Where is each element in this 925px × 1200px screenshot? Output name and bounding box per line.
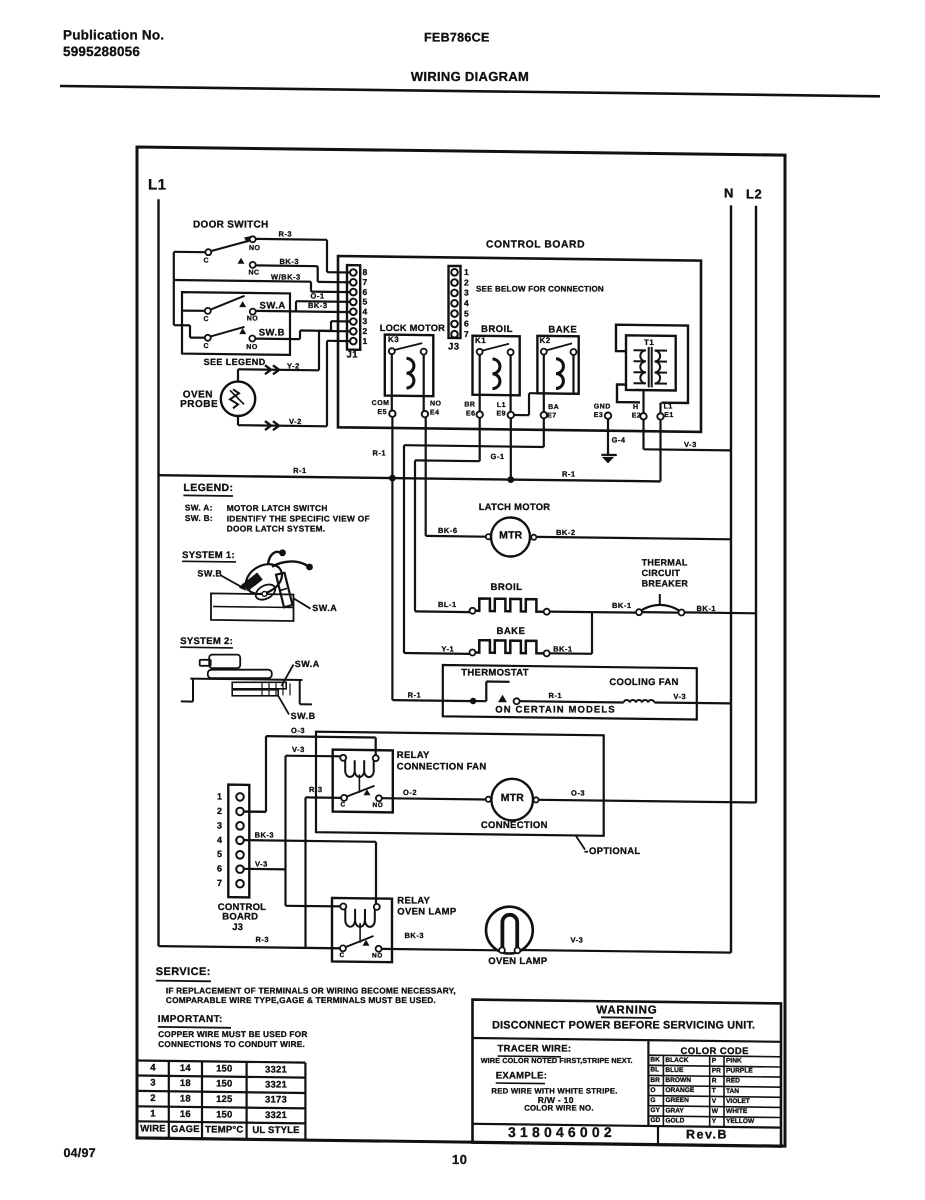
wire E9 to bus (491, 418, 511, 479)
svg-text:SERVICE:: SERVICE: (156, 966, 211, 978)
transformer primary loop wire (616, 325, 688, 403)
wire R-1 to thermostat (392, 478, 473, 701)
svg-text:3: 3 (464, 288, 469, 298)
svg-text:5995288056: 5995288056 (63, 44, 140, 59)
svg-text:318046002: 318046002 (508, 1124, 616, 1140)
svg-text:PROBE: PROBE (180, 399, 218, 410)
svg-text:NO: NO (247, 315, 259, 322)
svg-text:CIRCUIT: CIRCUIT (642, 568, 681, 578)
svg-text:E7: E7 (547, 412, 557, 419)
svg-text:R-1: R-1 (408, 691, 422, 700)
svg-text:BROWN: BROWN (665, 1077, 691, 1084)
svg-text:DISCONNECT POWER BEFORE SERVIC: DISCONNECT POWER BEFORE SERVICING UNIT. (492, 1019, 755, 1031)
heating element broil (438, 582, 550, 615)
relay oven lamp (332, 896, 457, 963)
wire BA E7 to bake element (404, 418, 544, 654)
svg-text:WARNING: WARNING (596, 1005, 657, 1017)
wire R-3 door NO to J1-8 (256, 230, 351, 273)
switch SW.B (204, 327, 285, 351)
svg-text:BL-1: BL-1 (438, 600, 457, 609)
svg-text:SEE LEGEND: SEE LEGEND (204, 357, 266, 367)
motor connection fan MTR (481, 779, 548, 831)
svg-text:SW. B:: SW. B: (185, 513, 213, 523)
svg-text:COOLING FAN: COOLING FAN (609, 677, 678, 688)
svg-text:RELAY: RELAY (397, 896, 430, 907)
wire L1 bus (157, 199, 159, 946)
svg-text:1: 1 (363, 336, 368, 346)
svg-text:04/97: 04/97 (64, 1146, 96, 1160)
svg-text:E3: E3 (594, 412, 604, 419)
svg-text:L1: L1 (148, 176, 167, 193)
svg-text:J1: J1 (347, 350, 359, 361)
wire J3-2 stub (243, 810, 266, 812)
thermal circuit breaker (612, 558, 716, 616)
svg-text:O-1: O-1 (311, 291, 325, 300)
svg-text:V-3: V-3 (292, 745, 305, 754)
svg-text:L1: L1 (664, 403, 673, 410)
svg-text:ON CERTAIN MODELS: ON CERTAIN MODELS (495, 705, 615, 716)
svg-text:COMPARABLE WIRE TYPE,GAGE & TE: COMPARABLE WIRE TYPE,GAGE & TERMINALS MU… (166, 995, 436, 1005)
svg-text:NC: NC (249, 269, 260, 276)
svg-text:7: 7 (363, 277, 368, 287)
page footer (64, 1146, 468, 1167)
svg-text:4: 4 (363, 306, 368, 316)
wire V-2 probe to J1-1 (238, 341, 351, 430)
svg-text:3173: 3173 (265, 1095, 287, 1106)
svg-text:2: 2 (363, 326, 368, 336)
svg-text:IDENTIFY THE SPECIFIC VIEW OF: IDENTIFY THE SPECIFIC VIEW OF (227, 514, 370, 524)
svg-text:R-1: R-1 (549, 691, 563, 700)
terminal E6 BR (464, 402, 483, 418)
svg-text:OVEN LAMP: OVEN LAMP (397, 907, 457, 918)
svg-text:TRACER WIRE:: TRACER WIRE: (498, 1044, 572, 1055)
svg-text:10: 10 (452, 1152, 467, 1167)
svg-text:LEGEND:: LEGEND: (183, 482, 233, 494)
svg-text:GND: GND (594, 404, 611, 411)
wire door C to latch switches (174, 252, 206, 338)
svg-text:3: 3 (150, 1078, 155, 1089)
svg-text:EXAMPLE:: EXAMPLE: (496, 1071, 548, 1082)
svg-text:J3: J3 (232, 922, 243, 933)
svg-text:WIRING DIAGRAM: WIRING DIAGRAM (411, 69, 529, 84)
svg-text:WIRE: WIRE (140, 1124, 166, 1135)
svg-text:OPTIONAL: OPTIONAL (589, 846, 640, 857)
svg-text:R-3: R-3 (279, 230, 293, 239)
control board box (338, 239, 701, 432)
svg-text:150: 150 (216, 1064, 232, 1075)
svg-text:BL: BL (650, 1067, 659, 1074)
part number band (473, 1124, 782, 1145)
svg-text:8: 8 (363, 267, 368, 277)
wire E9 to K2 bottom (514, 393, 579, 415)
svg-text:MTR: MTR (501, 792, 525, 804)
wire O-2 fan relay NO to fan motor (382, 788, 486, 800)
connector J1 (347, 265, 368, 360)
svg-text:GREEN: GREEN (665, 1097, 689, 1104)
svg-text:125: 125 (216, 1094, 233, 1105)
node junction E9/R-1 (507, 476, 514, 483)
svg-text:4: 4 (150, 1063, 156, 1074)
svg-text:BA: BA (548, 404, 559, 411)
svg-text:R-1: R-1 (373, 449, 387, 458)
svg-text:SW.B: SW.B (291, 711, 316, 721)
svg-text:1: 1 (217, 791, 223, 801)
svg-text:TAN: TAN (726, 1088, 739, 1095)
node L1 (148, 176, 167, 193)
svg-text:BK-3: BK-3 (308, 301, 328, 310)
wire L2 bus (755, 206, 757, 803)
svg-text:P: P (712, 1057, 717, 1064)
svg-text:V-2: V-2 (289, 417, 302, 426)
svg-text:5: 5 (464, 308, 469, 318)
svg-text:BK-3: BK-3 (255, 831, 275, 840)
svg-text:L2: L2 (746, 187, 762, 202)
svg-text:CONNECTIONS TO CONDUIT WIRE.: CONNECTIONS TO CONDUIT WIRE. (158, 1039, 305, 1049)
wire V-3 oven lamp to N (521, 935, 731, 952)
svg-text:COPPER WIRE MUST BE USED FOR: COPPER WIRE MUST BE USED FOR (158, 1029, 307, 1039)
svg-text:O: O (650, 1087, 655, 1094)
svg-text:3321: 3321 (265, 1079, 287, 1090)
wire BR E6 to broil element (415, 418, 480, 612)
svg-text:SW. A:: SW. A: (185, 502, 213, 512)
svg-text:BK: BK (650, 1057, 660, 1064)
svg-text:DOOR LATCH SYSTEM.: DOOR LATCH SYSTEM. (227, 524, 326, 534)
wire BK-3 lamp relay NO to oven lamp (382, 931, 498, 950)
svg-text:CONNECTION: CONNECTION (481, 820, 548, 831)
svg-text:6: 6 (217, 864, 223, 874)
svg-text:3: 3 (217, 820, 223, 830)
terminal E5 COM (372, 400, 396, 417)
svg-text:O-3: O-3 (571, 788, 585, 797)
svg-text:SW.A: SW.A (295, 659, 320, 669)
svg-text:WIRE COLOR NOTED FIRST,STRIPE: WIRE COLOR NOTED FIRST,STRIPE NEXT. (481, 1056, 633, 1065)
wire bake element up to broil wire (550, 612, 592, 654)
svg-text:5: 5 (363, 297, 368, 307)
relay connection fan (333, 750, 487, 813)
svg-text:150: 150 (216, 1109, 232, 1120)
svg-text:BK-1: BK-1 (612, 601, 632, 610)
legend system 1 sketch (182, 549, 337, 621)
svg-text:NO: NO (430, 401, 442, 408)
svg-text:GD: GD (650, 1117, 660, 1124)
svg-text:COM: COM (372, 400, 390, 407)
svg-text:SEE BELOW FOR CONNECTION: SEE BELOW FOR CONNECTION (476, 284, 604, 293)
wire R-3 bus L1 to lamp relay (159, 935, 341, 949)
svg-text:Rev.B: Rev.B (686, 1128, 728, 1142)
svg-text:C: C (204, 257, 210, 264)
svg-text:C: C (341, 802, 346, 809)
svg-text:SW.B: SW.B (197, 569, 222, 579)
lamp oven lamp (486, 907, 548, 967)
header rule (60, 86, 880, 96)
svg-text:OVEN LAMP: OVEN LAMP (488, 956, 548, 967)
svg-text:Y-1: Y-1 (441, 645, 454, 654)
relay K2 bake (537, 336, 578, 412)
svg-text:BK-2: BK-2 (556, 528, 576, 537)
color code table (648, 1046, 781, 1128)
wire E1 to R-1 bus (659, 420, 661, 482)
switch door switch (193, 220, 269, 277)
svg-text:E1: E1 (664, 412, 674, 419)
svg-text:2: 2 (464, 277, 469, 287)
svg-text:G-4: G-4 (612, 436, 626, 445)
wire R-3 fan relay C (306, 785, 342, 948)
svg-text:RELAY: RELAY (397, 750, 430, 761)
svg-text:THERMOSTAT: THERMOSTAT (461, 668, 529, 679)
svg-text:THERMAL: THERMAL (642, 558, 688, 568)
svg-text:7: 7 (217, 878, 223, 888)
svg-text:BK-3: BK-3 (280, 257, 300, 266)
svg-text:16: 16 (180, 1109, 191, 1120)
svg-text:BLUE: BLUE (665, 1067, 684, 1074)
thermostat and cooling fan box (443, 665, 697, 720)
svg-text:V-3: V-3 (684, 440, 697, 449)
svg-text:R-3: R-3 (309, 785, 323, 794)
svg-text:NO: NO (373, 802, 384, 809)
svg-text:DOOR SWITCH: DOOR SWITCH (193, 220, 269, 231)
page header (63, 27, 529, 84)
svg-text:GAGE: GAGE (171, 1124, 200, 1135)
wire T1 H to E2 (642, 390, 644, 413)
svg-text:BR: BR (464, 402, 475, 409)
svg-text:14: 14 (180, 1063, 191, 1074)
svg-text:GOLD: GOLD (665, 1117, 684, 1124)
svg-text:E6: E6 (466, 410, 476, 417)
svg-text:BROIL: BROIL (491, 582, 523, 593)
svg-text:2: 2 (217, 806, 223, 816)
wire V-3 to lamp relay coil (286, 905, 341, 908)
transformer T1 (626, 335, 676, 390)
svg-text:SYSTEM 2:: SYSTEM 2: (180, 636, 233, 647)
svg-text:3321: 3321 (265, 1110, 287, 1121)
motor latch motor MTR (479, 501, 551, 556)
svg-text:Y-2: Y-2 (287, 361, 300, 370)
svg-text:C: C (340, 952, 345, 959)
svg-text:BROIL: BROIL (481, 324, 513, 335)
svg-text:GY: GY (650, 1107, 660, 1114)
svg-text:N: N (724, 186, 734, 201)
svg-text:YELLOW: YELLOW (726, 1118, 755, 1125)
svg-text:PURPLE: PURPLE (726, 1068, 753, 1075)
svg-text:K2: K2 (540, 336, 551, 345)
svg-text:R-1: R-1 (562, 470, 576, 479)
wire E4 to latch motor (426, 417, 486, 536)
relay K1 broil (473, 336, 520, 412)
svg-text:4: 4 (464, 298, 469, 308)
svg-text:H: H (633, 404, 639, 411)
svg-text:C: C (204, 343, 210, 350)
svg-text:18: 18 (180, 1094, 191, 1105)
wire V-3 to fan relay coil (286, 745, 341, 906)
svg-text:3: 3 (363, 316, 368, 326)
svg-text:E4: E4 (430, 409, 440, 416)
svg-text:BK-1: BK-1 (553, 644, 573, 653)
svg-text:SW.B: SW.B (259, 328, 285, 339)
warning box (473, 1000, 782, 1147)
svg-text:SYSTEM 1:: SYSTEM 1: (182, 550, 235, 561)
svg-text:4: 4 (217, 835, 223, 845)
svg-text:CONNECTION FAN: CONNECTION FAN (397, 762, 487, 773)
svg-text:WHITE: WHITE (726, 1108, 748, 1115)
svg-text:BAKE: BAKE (497, 626, 526, 637)
svg-text:3321: 3321 (265, 1064, 287, 1075)
svg-text:E5: E5 (377, 409, 387, 416)
svg-text:W: W (712, 1108, 719, 1115)
svg-text:V-3: V-3 (571, 935, 584, 944)
wire O-3 J3-2 to fan relay coil (241, 726, 376, 812)
wire T1 L1 to E1 (659, 403, 661, 414)
svg-text:FEB786CE: FEB786CE (424, 31, 490, 45)
svg-text:R-3: R-3 (256, 935, 270, 944)
svg-text:5: 5 (217, 849, 223, 859)
heating element bake (441, 626, 572, 656)
svg-text:O-2: O-2 (403, 788, 417, 797)
svg-text:IMPORTANT:: IMPORTANT: (158, 1014, 223, 1025)
wire BK-3 door NC to J1-7 (256, 257, 351, 283)
svg-text:G-1: G-1 (491, 452, 505, 461)
svg-text:PR: PR (712, 1067, 721, 1074)
wire breaker to L2 (685, 611, 757, 614)
svg-text:SW.A: SW.A (312, 603, 337, 613)
svg-text:18: 18 (180, 1078, 191, 1089)
svg-text:BK-6: BK-6 (438, 526, 458, 535)
svg-text:J3: J3 (448, 342, 460, 353)
svg-text:VIOLET: VIOLET (726, 1098, 750, 1105)
wire W/BK-3 to J1-6 (174, 272, 351, 292)
svg-text:BOARD: BOARD (222, 911, 258, 922)
wire N bus (730, 205, 732, 952)
terminal E7 BA (541, 404, 560, 419)
svg-text:W/BK-3: W/BK-3 (271, 272, 301, 281)
svg-text:BR: BR (650, 1077, 660, 1084)
svg-text:NO: NO (246, 344, 258, 351)
wire R-1 thermostat to fan (520, 691, 624, 703)
svg-text:LOCK MOTOR: LOCK MOTOR (380, 323, 445, 333)
cooling fan coil (609, 677, 678, 702)
ground G-4 from E3 (601, 419, 626, 464)
svg-text:UL STYLE: UL STYLE (252, 1125, 299, 1136)
svg-text:E9: E9 (496, 411, 506, 418)
relay K3 lock motor (385, 335, 434, 412)
node junction E5/R-1 (389, 475, 396, 482)
svg-text:ORANGE: ORANGE (665, 1087, 695, 1094)
svg-text:K1: K1 (475, 336, 486, 345)
switch box SW.A / SW.B (182, 292, 290, 355)
wire V-3 E2 to N (644, 419, 732, 450)
svg-text:MOTOR LATCH SWITCH: MOTOR LATCH SWITCH (227, 503, 328, 513)
svg-text:LATCH MOTOR: LATCH MOTOR (479, 501, 551, 512)
svg-text:T: T (712, 1088, 716, 1095)
wire gauge table (137, 1061, 305, 1140)
svg-text:6: 6 (464, 319, 469, 329)
svg-text:2: 2 (150, 1093, 155, 1104)
svg-text:V-3: V-3 (255, 860, 268, 869)
svg-text:BAKE: BAKE (548, 325, 577, 336)
wire BK-3 SW.A NO to J1-4 (255, 301, 350, 312)
svg-text:RED: RED (726, 1078, 740, 1085)
wire O-3 fan motor to L2 (539, 788, 756, 802)
svg-text:BK-3: BK-3 (405, 931, 425, 940)
wire R-1 bus (159, 466, 661, 482)
svg-text:NO: NO (249, 245, 261, 252)
svg-text:6: 6 (363, 287, 368, 297)
svg-text:BLACK: BLACK (665, 1057, 688, 1064)
svg-text:CONTROL BOARD: CONTROL BOARD (486, 239, 585, 250)
svg-text:Y: Y (712, 1118, 717, 1125)
svg-text:MTR: MTR (499, 530, 523, 542)
wire V-3 fan to N (654, 692, 731, 703)
wire broil element to breaker (550, 612, 636, 613)
resistor oven probe (180, 382, 255, 416)
legend system 2 sketch (180, 636, 320, 721)
switch SW.A (182, 296, 286, 323)
svg-text:R: R (712, 1078, 717, 1085)
svg-text:NO: NO (372, 953, 383, 960)
svg-text:V-3: V-3 (673, 692, 686, 701)
svg-text:O-3: O-3 (291, 726, 305, 735)
terminal E4 NO (422, 401, 442, 418)
svg-text:V: V (712, 1098, 717, 1105)
svg-text:PINK: PINK (726, 1058, 742, 1065)
service notes (156, 966, 456, 1049)
terminal E9 L1 (496, 402, 514, 418)
svg-text:R-1: R-1 (293, 466, 307, 475)
connector J3 (board top) (448, 266, 469, 353)
svg-text:TEMP°C: TEMP°C (205, 1124, 243, 1135)
wire Y-2 probe to J1-2 (238, 331, 351, 382)
legend block (183, 482, 369, 534)
diagram border frame (137, 147, 785, 1146)
svg-text:BREAKER: BREAKER (642, 579, 689, 589)
terminal E2 H (632, 404, 647, 419)
wire E5 R-1 down (373, 417, 393, 478)
node N (724, 186, 734, 201)
svg-text:COLOR WIRE NO.: COLOR WIRE NO. (524, 1104, 594, 1113)
terminal E3 GND (594, 404, 612, 419)
wire O-1 SW.A NO to J1-5 (296, 291, 351, 311)
svg-text:150: 150 (216, 1079, 232, 1090)
optional enclosure box (316, 732, 640, 857)
svg-text:L1: L1 (497, 402, 506, 409)
svg-text:GRAY: GRAY (665, 1107, 684, 1114)
svg-text:IF REPLACEMENT OF TERMINALS OR: IF REPLACEMENT OF TERMINALS OR WIRING BE… (166, 986, 456, 996)
wire BK-2 latch motor to N (536, 528, 731, 539)
connector J3 (bottom) (217, 785, 266, 933)
svg-text:T1: T1 (644, 338, 654, 347)
wire BK-3 J3-4 to lamp relay coil (243, 831, 376, 904)
wire SW.B NO to J1-3 (255, 321, 351, 339)
svg-text:1: 1 (464, 267, 469, 277)
thermostat contact (461, 668, 529, 705)
svg-text:1: 1 (150, 1109, 156, 1120)
svg-text:Publication No.: Publication No. (63, 27, 164, 42)
wire V-3 J3-6 (243, 860, 285, 870)
svg-text:G: G (650, 1097, 655, 1104)
svg-text:K3: K3 (388, 335, 399, 344)
svg-text:C: C (204, 316, 210, 323)
node L2 (746, 187, 762, 202)
svg-text:7: 7 (464, 329, 469, 339)
terminal E1 L1 (657, 403, 673, 419)
